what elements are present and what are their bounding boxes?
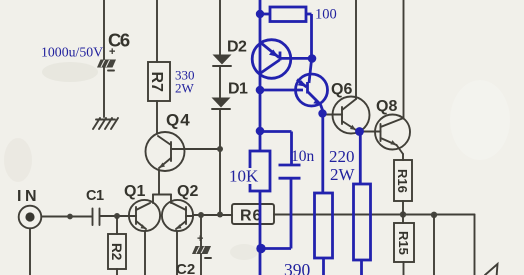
- node: feedback junction: [431, 212, 437, 218]
- wire: Q4 base to diode chain: [185, 148, 221, 150]
- wire: supply rail drop to C6: [103, 0, 105, 60]
- svg-text:10K: 10K: [229, 167, 259, 186]
- capacitor C2: [176, 216, 211, 275]
- transistor T2 (blue): [296, 60, 328, 106]
- wire: D2 to D1: [219, 66, 221, 98]
- svg-text:Q8: Q8: [376, 98, 397, 115]
- wire: down to 220 resistor 2: [359, 132, 362, 185]
- svg-text:D2: D2: [227, 39, 247, 56]
- transistor T1 (blue): [252, 40, 308, 79]
- wire: Q2 base to R6: [193, 214, 232, 216]
- capacitor 10n (blue): [279, 165, 301, 178]
- wire: T2 emitter to Q6 base node: [321, 105, 323, 111]
- label 10K: [228, 167, 259, 186]
- svg-text:C2: C2: [176, 261, 195, 275]
- svg-text:R15: R15: [396, 231, 411, 255]
- resistor R16: [394, 160, 412, 201]
- wire: Q2 to bottom: [176, 231, 178, 275]
- svg-text:IN: IN: [17, 188, 40, 205]
- node: Q4 base / diode junction: [217, 146, 223, 152]
- ground: [93, 118, 118, 129]
- wire: 220 #2 to bottom: [360, 260, 363, 275]
- svg-text:2W: 2W: [175, 81, 195, 96]
- label 330 2W: [175, 68, 195, 96]
- svg-text:100: 100: [315, 7, 337, 23]
- wire: node to R2: [116, 216, 118, 234]
- resistor R15: [394, 223, 414, 262]
- svg-text:Q1: Q1: [124, 183, 145, 200]
- wire: D1 down to R6 node: [219, 109, 221, 215]
- svg-text:R2: R2: [109, 243, 124, 260]
- label 100: [315, 7, 337, 23]
- wire: 220 #1 to bottom: [322, 258, 325, 275]
- svg-text:390: 390: [284, 260, 311, 275]
- resistor 220 2W #2 (blue): [354, 184, 371, 260]
- wire: blue to T2 base: [260, 89, 303, 92]
- svg-text:Q4: Q4: [166, 111, 191, 130]
- wire: rail to R15: [402, 215, 404, 224]
- node (blue): top junction: [256, 10, 264, 18]
- svg-text:C1: C1: [86, 188, 104, 204]
- svg-text:Q6: Q6: [331, 81, 352, 98]
- capacitor C6: [97, 30, 130, 71]
- diode D2: [213, 39, 248, 67]
- wire: blue main vertical (top): [259, 0, 262, 151]
- transistor Q1: [129, 200, 160, 231]
- transistor Q2: [162, 200, 193, 231]
- resistor 100 (blue): [260, 7, 312, 22]
- wire: R2 to bottom: [116, 269, 118, 275]
- wire: C6 to ground: [103, 67, 105, 117]
- input jack: [19, 206, 42, 229]
- wire: 100 resistor down to T2 collector node: [310, 14, 313, 59]
- node (blue): Q6 base junction: [318, 109, 326, 117]
- resistor R2: [108, 234, 126, 269]
- wire: Q8 collector up: [403, 0, 405, 118]
- wire: 10n branch bottom: [261, 178, 291, 248]
- wire: rail corner down to speaker: [474, 215, 476, 275]
- label Q8: [376, 98, 397, 115]
- wire: Q6 collector up: [355, 0, 357, 99]
- node on input wire: [67, 214, 73, 220]
- resistor R7: [148, 62, 170, 101]
- svg-text:R16: R16: [395, 169, 410, 193]
- transistor Q8: [361, 115, 410, 150]
- wire: rail drop to D2: [219, 0, 221, 55]
- node: R16/R15 junction: [400, 211, 406, 217]
- wire: Q4 emitter to Q1/Q2 collectors bracket: [153, 170, 171, 203]
- svg-text:R7: R7: [148, 72, 165, 93]
- label 390: [284, 260, 311, 275]
- capacitor C1: [86, 188, 104, 225]
- node (blue): bottom junction: [256, 244, 265, 253]
- node: diode/R6/Q2 base: [217, 212, 223, 218]
- wire: blue main vertical (bottom): [259, 191, 262, 275]
- resistor 220 2W #1 (blue): [315, 193, 333, 258]
- speaker: [485, 264, 498, 275]
- svg-text:Q2: Q2: [177, 183, 198, 200]
- svg-text:220: 220: [329, 147, 355, 166]
- resistor 10K (blue): [250, 151, 270, 191]
- wire: rail drop to R7: [156, 0, 158, 62]
- wire: output rail: [274, 214, 475, 216]
- label Q1: [124, 183, 145, 200]
- label 1000u/50V: [41, 45, 103, 60]
- wire: jack to C1: [42, 216, 93, 218]
- label Q6: [331, 81, 352, 98]
- diode D1: [212, 81, 249, 110]
- node (blue): T1 base / T2 collector: [308, 54, 317, 63]
- svg-text:1000u/50V: 1000u/50V: [41, 45, 103, 60]
- wire: Q8 emitter to R16: [397, 145, 404, 160]
- wire: feedback drop: [433, 215, 435, 275]
- label Q2: [177, 183, 198, 200]
- node (blue): Q6 emitter / Q8 base junction: [355, 127, 364, 136]
- node: R2 junction: [114, 213, 120, 219]
- wire: jack to bottom: [29, 229, 31, 275]
- node (blue): T1 collector junction: [256, 86, 265, 95]
- wire: R15 to bottom: [403, 262, 405, 275]
- svg-text:2W: 2W: [330, 165, 356, 184]
- svg-text:+: +: [109, 46, 115, 58]
- transistor Q6: [321, 97, 370, 134]
- label 10n: [291, 148, 315, 165]
- node (blue): 10K top junction: [256, 127, 265, 136]
- label IN: [17, 188, 40, 205]
- svg-text:D1: D1: [228, 81, 248, 98]
- wire: R16 to rail: [402, 201, 404, 215]
- node: C2 junction: [198, 212, 204, 218]
- label 220 2W: [329, 147, 356, 184]
- wire: Q1 to bottom: [144, 231, 146, 275]
- wire: down to 220 resistor 1: [321, 114, 324, 194]
- wire: R7 to Q4: [156, 101, 158, 134]
- transistor Q4: [146, 111, 191, 172]
- svg-text:10n: 10n: [291, 148, 315, 165]
- resistor R6: [232, 204, 274, 225]
- wire: 10n branch top: [260, 132, 292, 166]
- wire: C1 to Q1 base: [100, 215, 130, 217]
